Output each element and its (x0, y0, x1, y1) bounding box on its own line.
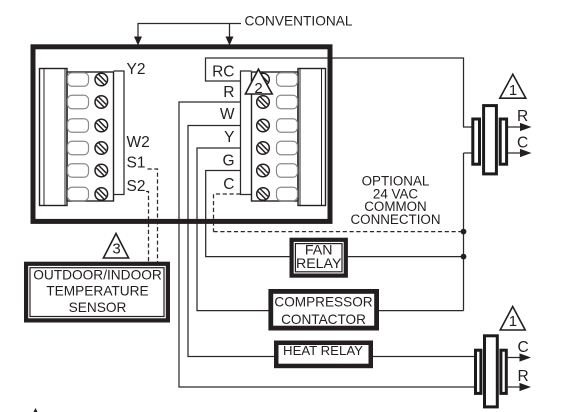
right terminal block plug (298, 69, 326, 206)
svg-text:C: C (223, 176, 234, 193)
svg-text:3: 3 (112, 241, 120, 258)
svg-text:COMPRESSOR: COMPRESSOR (274, 295, 372, 310)
fan relay box (292, 240, 346, 276)
arrow R top (508, 126, 520, 128)
transformer top (quick connect) (473, 119, 480, 164)
svg-text:TEMPERATURE: TEMPERATURE (46, 284, 148, 299)
svg-text:S1: S1 (127, 155, 146, 172)
left terminal block plug (40, 69, 68, 206)
svg-text:R: R (518, 368, 529, 385)
thermostat box (33, 47, 330, 222)
right screws (257, 73, 270, 200)
wire compressor contactor to common (379, 310, 464, 312)
svg-text:CONVENTIONAL: CONVENTIONAL (245, 14, 353, 29)
wire fan relay to common (348, 256, 464, 258)
svg-text:OUTDOOR/INDOOR: OUTDOOR/INDOOR (33, 268, 162, 283)
svg-text:Y: Y (224, 129, 234, 146)
svg-text:C: C (518, 339, 529, 356)
svg-text:SENSOR: SENSOR (69, 300, 127, 315)
note triangle 3 (103, 234, 128, 259)
wire G to fan relay (206, 171, 290, 257)
compressor contactor box (271, 291, 377, 328)
svg-text:CONTACTOR: CONTACTOR (281, 312, 366, 327)
right label strip line (241, 71, 252, 195)
wire S2 dashed (146, 192, 149, 263)
svg-text:RC: RC (212, 64, 234, 81)
svg-text:G: G (222, 153, 234, 170)
svg-text:1: 1 (509, 82, 517, 99)
left terminal strip (67, 72, 114, 201)
svg-text:1: 1 (509, 313, 517, 330)
sensor box (26, 264, 168, 321)
left label strip line (114, 71, 125, 195)
left slots (68, 73, 89, 201)
wire S1 dashed (148, 169, 158, 262)
wire R to bottom transformer (179, 102, 475, 387)
svg-text:2: 2 (254, 80, 262, 97)
svg-text:W: W (220, 106, 235, 123)
wire RC to transformer R (206, 58, 472, 127)
svg-text:CONNECTION: CONNECTION (350, 212, 440, 227)
wire C dashed optional common (214, 194, 464, 232)
arrowhead right (226, 37, 234, 46)
junction dot fan relay common (461, 254, 467, 260)
svg-text:Y2: Y2 (127, 61, 146, 78)
note triangle 1 bottom (500, 307, 525, 331)
note triangle bottom left (cut off) (31, 408, 40, 412)
callout CONVENTIONAL bracket (138, 24, 241, 40)
wire heat relay to bottom transformer C (373, 356, 475, 358)
svg-text:HEAT RELAY: HEAT RELAY (283, 343, 363, 358)
wire Y to compressor contactor (197, 148, 269, 311)
note triangle 2 (245, 69, 272, 94)
svg-text:C: C (517, 134, 528, 151)
svg-text:RELAY: RELAY (296, 256, 342, 272)
svg-text:W2: W2 (127, 134, 150, 151)
right slots (277, 73, 298, 201)
wire W to heat relay (188, 126, 274, 357)
arrowhead left (134, 37, 142, 46)
arrow C top (508, 152, 520, 154)
left screws (95, 73, 108, 200)
svg-text:R: R (223, 84, 234, 101)
right terminal strip (252, 72, 299, 201)
note triangle 1 top (500, 74, 526, 98)
svg-text:S2: S2 (127, 178, 146, 195)
wire common vertical from transformer C (464, 153, 472, 311)
arrow R bottom (508, 386, 520, 388)
junction dot optional common (461, 229, 467, 235)
svg-text:R: R (517, 108, 528, 125)
arrow C bottom (508, 357, 520, 359)
transformer bottom (quick connect) (476, 350, 481, 393)
heat relay box (276, 343, 371, 366)
